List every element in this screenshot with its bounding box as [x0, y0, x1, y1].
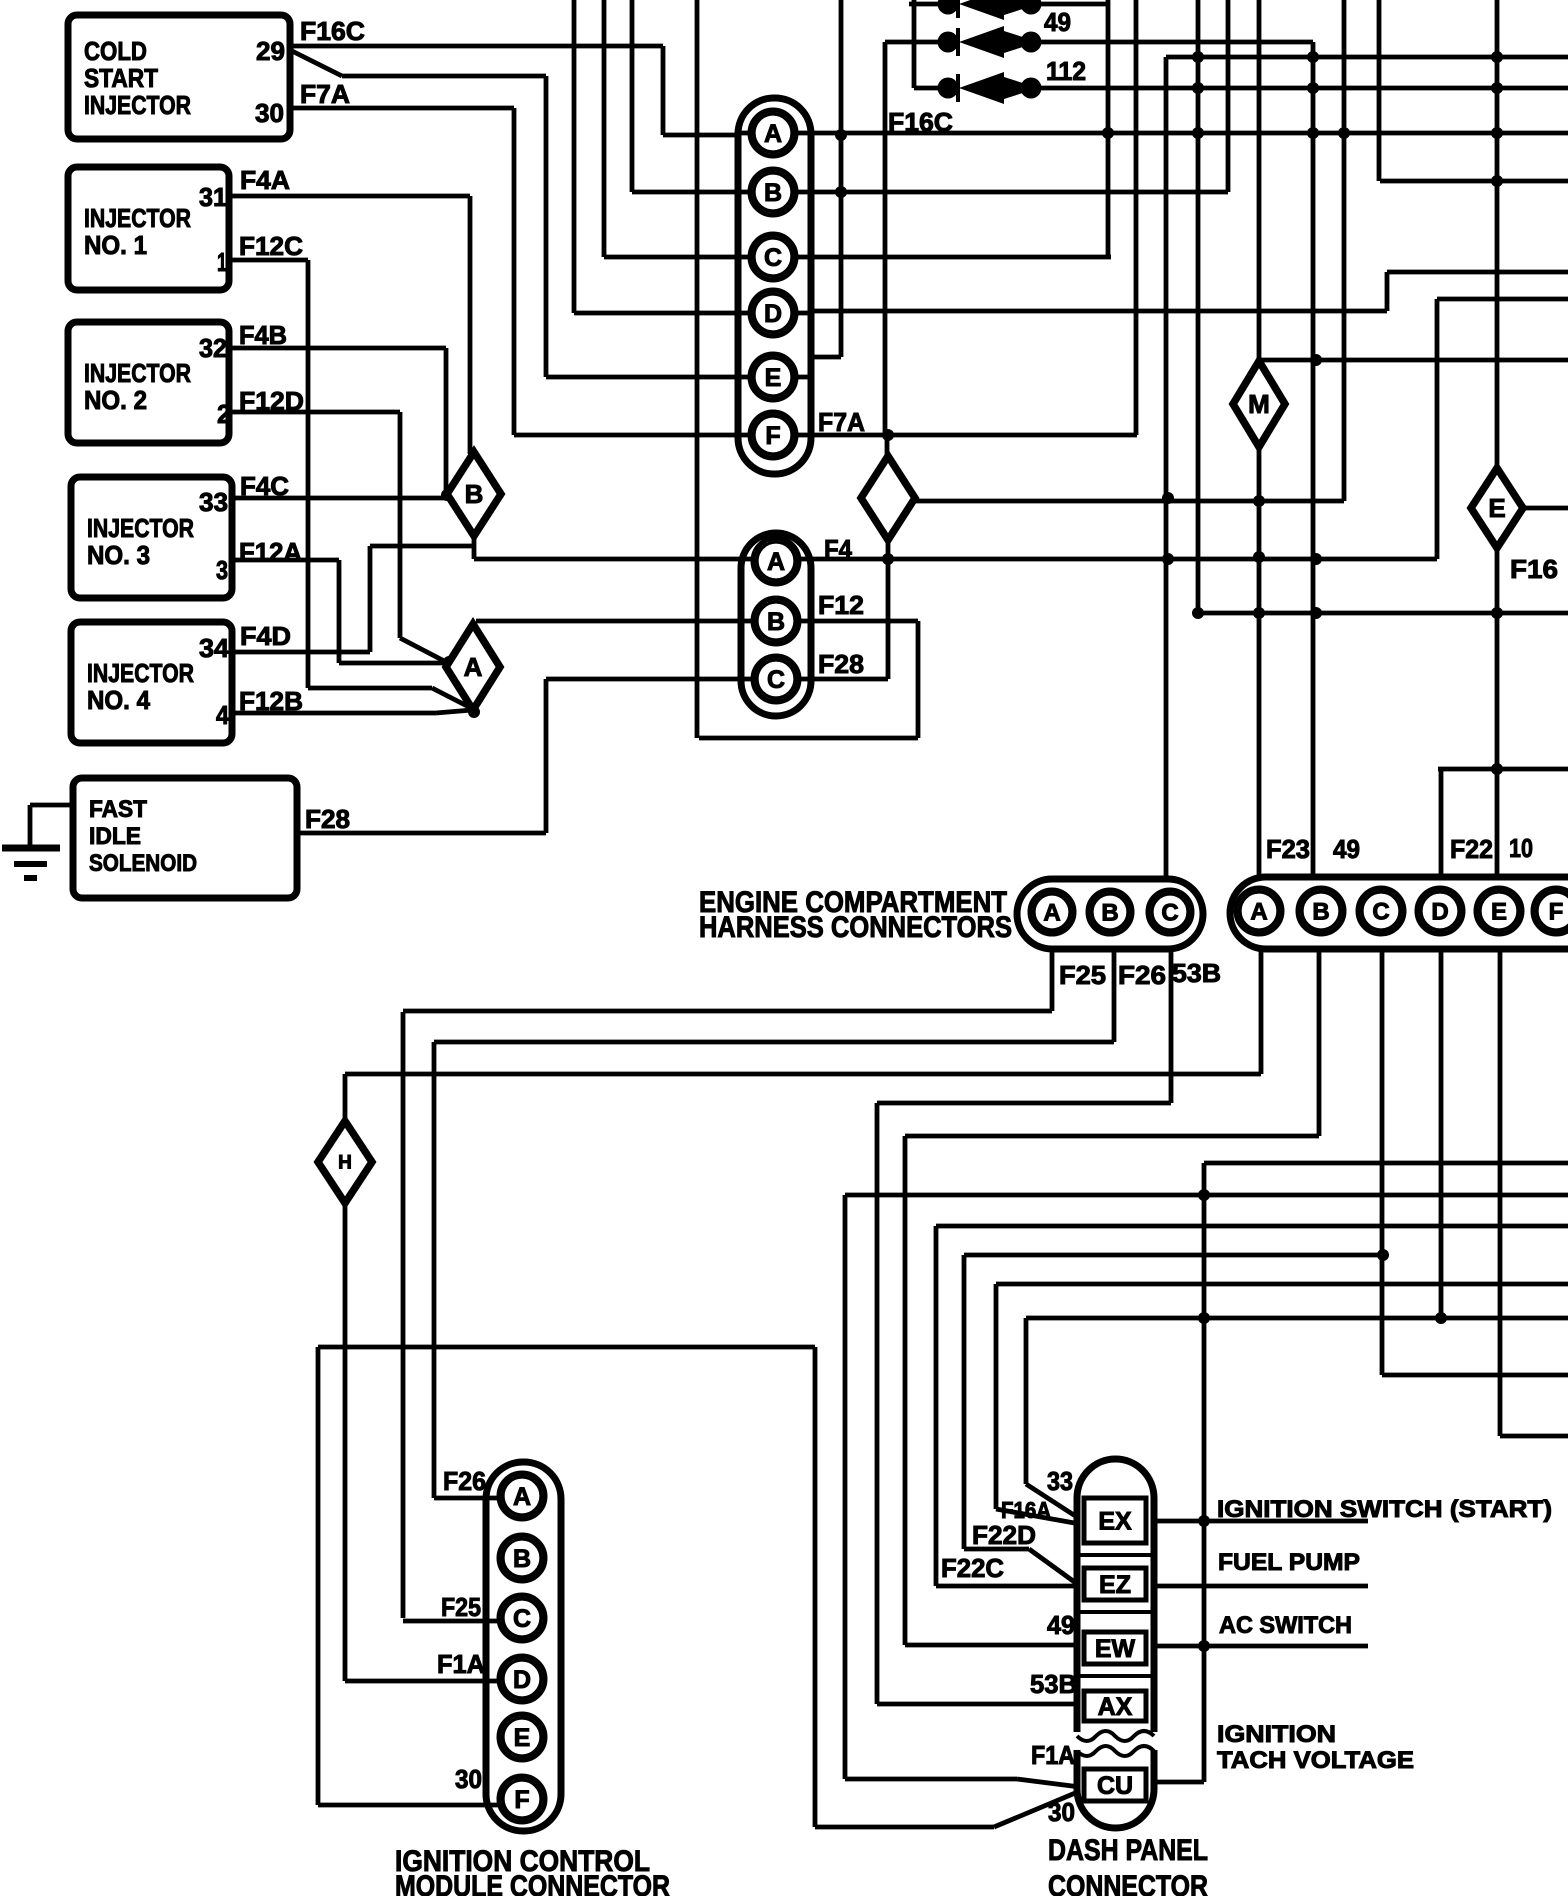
svg-text:C: C	[1372, 899, 1389, 926]
svg-text:FUEL PUMP: FUEL PUMP	[1218, 1549, 1360, 1576]
svg-text:F22C: F22C	[941, 1553, 1004, 1583]
svg-text:F23: F23	[1266, 834, 1310, 864]
svg-text:112: 112	[1046, 56, 1086, 86]
svg-text:49: 49	[1044, 7, 1071, 37]
svg-text:A: A	[764, 120, 782, 148]
svg-text:A: A	[1043, 900, 1060, 927]
svg-text:E: E	[514, 1724, 531, 1752]
svg-text:F4D: F4D	[240, 621, 291, 651]
svg-text:2: 2	[217, 399, 231, 429]
svg-text:30: 30	[455, 1764, 482, 1794]
svg-text:30: 30	[1048, 1797, 1075, 1827]
svg-text:NO. 3: NO. 3	[87, 540, 150, 570]
svg-text:IGNITION: IGNITION	[1217, 1721, 1336, 1748]
svg-text:TACH VOLTAGE: TACH VOLTAGE	[1217, 1747, 1414, 1774]
svg-text:F16C: F16C	[888, 107, 953, 137]
svg-text:C: C	[764, 244, 782, 272]
svg-text:C: C	[1161, 900, 1178, 927]
svg-text:D: D	[513, 1666, 531, 1694]
svg-text:F16: F16	[1510, 554, 1558, 584]
svg-text:33: 33	[199, 487, 228, 517]
svg-text:F16C: F16C	[300, 16, 365, 46]
svg-text:34: 34	[199, 633, 230, 663]
svg-text:B: B	[1101, 900, 1118, 927]
svg-text:F12A: F12A	[239, 537, 302, 567]
svg-text:C: C	[513, 1605, 531, 1633]
svg-text:EZ: EZ	[1099, 1571, 1131, 1599]
svg-text:3: 3	[216, 555, 228, 585]
svg-text:INJECTOR: INJECTOR	[84, 203, 191, 233]
svg-text:F12B: F12B	[239, 686, 303, 716]
svg-text:MODULE CONNECTOR: MODULE CONNECTOR	[395, 1870, 670, 1896]
svg-text:F22: F22	[1450, 834, 1493, 864]
svg-text:B: B	[1312, 899, 1329, 926]
svg-text:D: D	[1431, 899, 1448, 926]
svg-text:C: C	[767, 666, 785, 694]
svg-text:EW: EW	[1095, 1635, 1136, 1663]
svg-text:F: F	[1549, 899, 1564, 926]
svg-text:F12C: F12C	[239, 231, 303, 261]
svg-text:F: F	[514, 1786, 529, 1814]
svg-text:F25: F25	[1059, 960, 1106, 990]
svg-text:D: D	[764, 300, 782, 328]
svg-text:B: B	[767, 608, 785, 636]
svg-text:F4B: F4B	[239, 320, 287, 350]
svg-text:E: E	[765, 364, 782, 392]
svg-text:30: 30	[255, 98, 284, 128]
svg-text:F26: F26	[443, 1466, 486, 1496]
svg-text:IDLE: IDLE	[89, 823, 141, 850]
svg-text:DASH PANEL: DASH PANEL	[1048, 1834, 1208, 1867]
svg-text:F4A: F4A	[240, 165, 290, 195]
svg-text:E: E	[1488, 493, 1505, 523]
svg-text:INJECTOR: INJECTOR	[84, 90, 191, 120]
svg-text:START: START	[84, 63, 158, 93]
svg-text:M: M	[1248, 389, 1270, 419]
svg-text:F7A: F7A	[818, 407, 865, 437]
svg-text:E: E	[1491, 899, 1507, 926]
svg-text:SOLENOID: SOLENOID	[89, 850, 197, 877]
svg-text:IGNITION SWITCH (START): IGNITION SWITCH (START)	[1217, 1496, 1552, 1523]
svg-text:F28: F28	[818, 649, 864, 679]
svg-text:A: A	[767, 548, 785, 576]
svg-text:32: 32	[199, 333, 227, 363]
svg-text:F25: F25	[441, 1592, 481, 1622]
svg-text:53B: 53B	[1172, 958, 1221, 988]
svg-text:F12D: F12D	[239, 386, 304, 416]
svg-text:F4: F4	[824, 534, 852, 564]
svg-text:F7A: F7A	[300, 79, 350, 109]
svg-text:10: 10	[1509, 833, 1533, 863]
svg-text:INJECTOR: INJECTOR	[87, 513, 194, 543]
svg-text:NO. 4: NO. 4	[87, 685, 150, 715]
svg-text:31: 31	[199, 182, 227, 212]
svg-text:B: B	[513, 1545, 531, 1573]
svg-text:A: A	[513, 1483, 531, 1511]
svg-text:F22D: F22D	[972, 1520, 1036, 1550]
svg-text:FAST: FAST	[89, 796, 147, 823]
svg-text:53B: 53B	[1030, 1669, 1077, 1699]
svg-text:1: 1	[217, 247, 227, 277]
svg-text:AX: AX	[1098, 1693, 1133, 1721]
svg-text:CONNECTOR: CONNECTOR	[1048, 1870, 1208, 1896]
svg-text:33: 33	[1047, 1466, 1073, 1496]
svg-text:HARNESS CONNECTORS: HARNESS CONNECTORS	[699, 911, 1012, 944]
svg-text:49: 49	[1333, 834, 1360, 864]
svg-text:NO. 1: NO. 1	[84, 230, 147, 260]
svg-text:F12: F12	[818, 590, 864, 620]
svg-text:4: 4	[216, 700, 229, 730]
svg-text:F1A: F1A	[1031, 1740, 1075, 1770]
svg-text:H: H	[338, 1153, 352, 1174]
svg-text:NO. 2: NO. 2	[84, 385, 147, 415]
svg-text:CU: CU	[1097, 1772, 1133, 1800]
svg-text:COLD: COLD	[84, 36, 147, 66]
svg-text:A: A	[464, 652, 483, 682]
svg-text:A: A	[1250, 899, 1267, 926]
svg-text:F26: F26	[1118, 960, 1166, 990]
svg-text:F1A: F1A	[437, 1649, 485, 1679]
svg-text:49: 49	[1047, 1610, 1075, 1640]
svg-text:INJECTOR: INJECTOR	[87, 658, 194, 688]
svg-text:F28: F28	[305, 804, 350, 834]
svg-text:B: B	[764, 179, 782, 207]
svg-text:F4C: F4C	[240, 471, 289, 501]
svg-text:EX: EX	[1098, 1508, 1132, 1536]
svg-text:F: F	[765, 422, 780, 450]
svg-text:29: 29	[256, 36, 285, 66]
svg-text:INJECTOR: INJECTOR	[84, 358, 191, 388]
svg-text:B: B	[465, 479, 484, 509]
svg-text:AC SWITCH: AC SWITCH	[1219, 1612, 1352, 1639]
